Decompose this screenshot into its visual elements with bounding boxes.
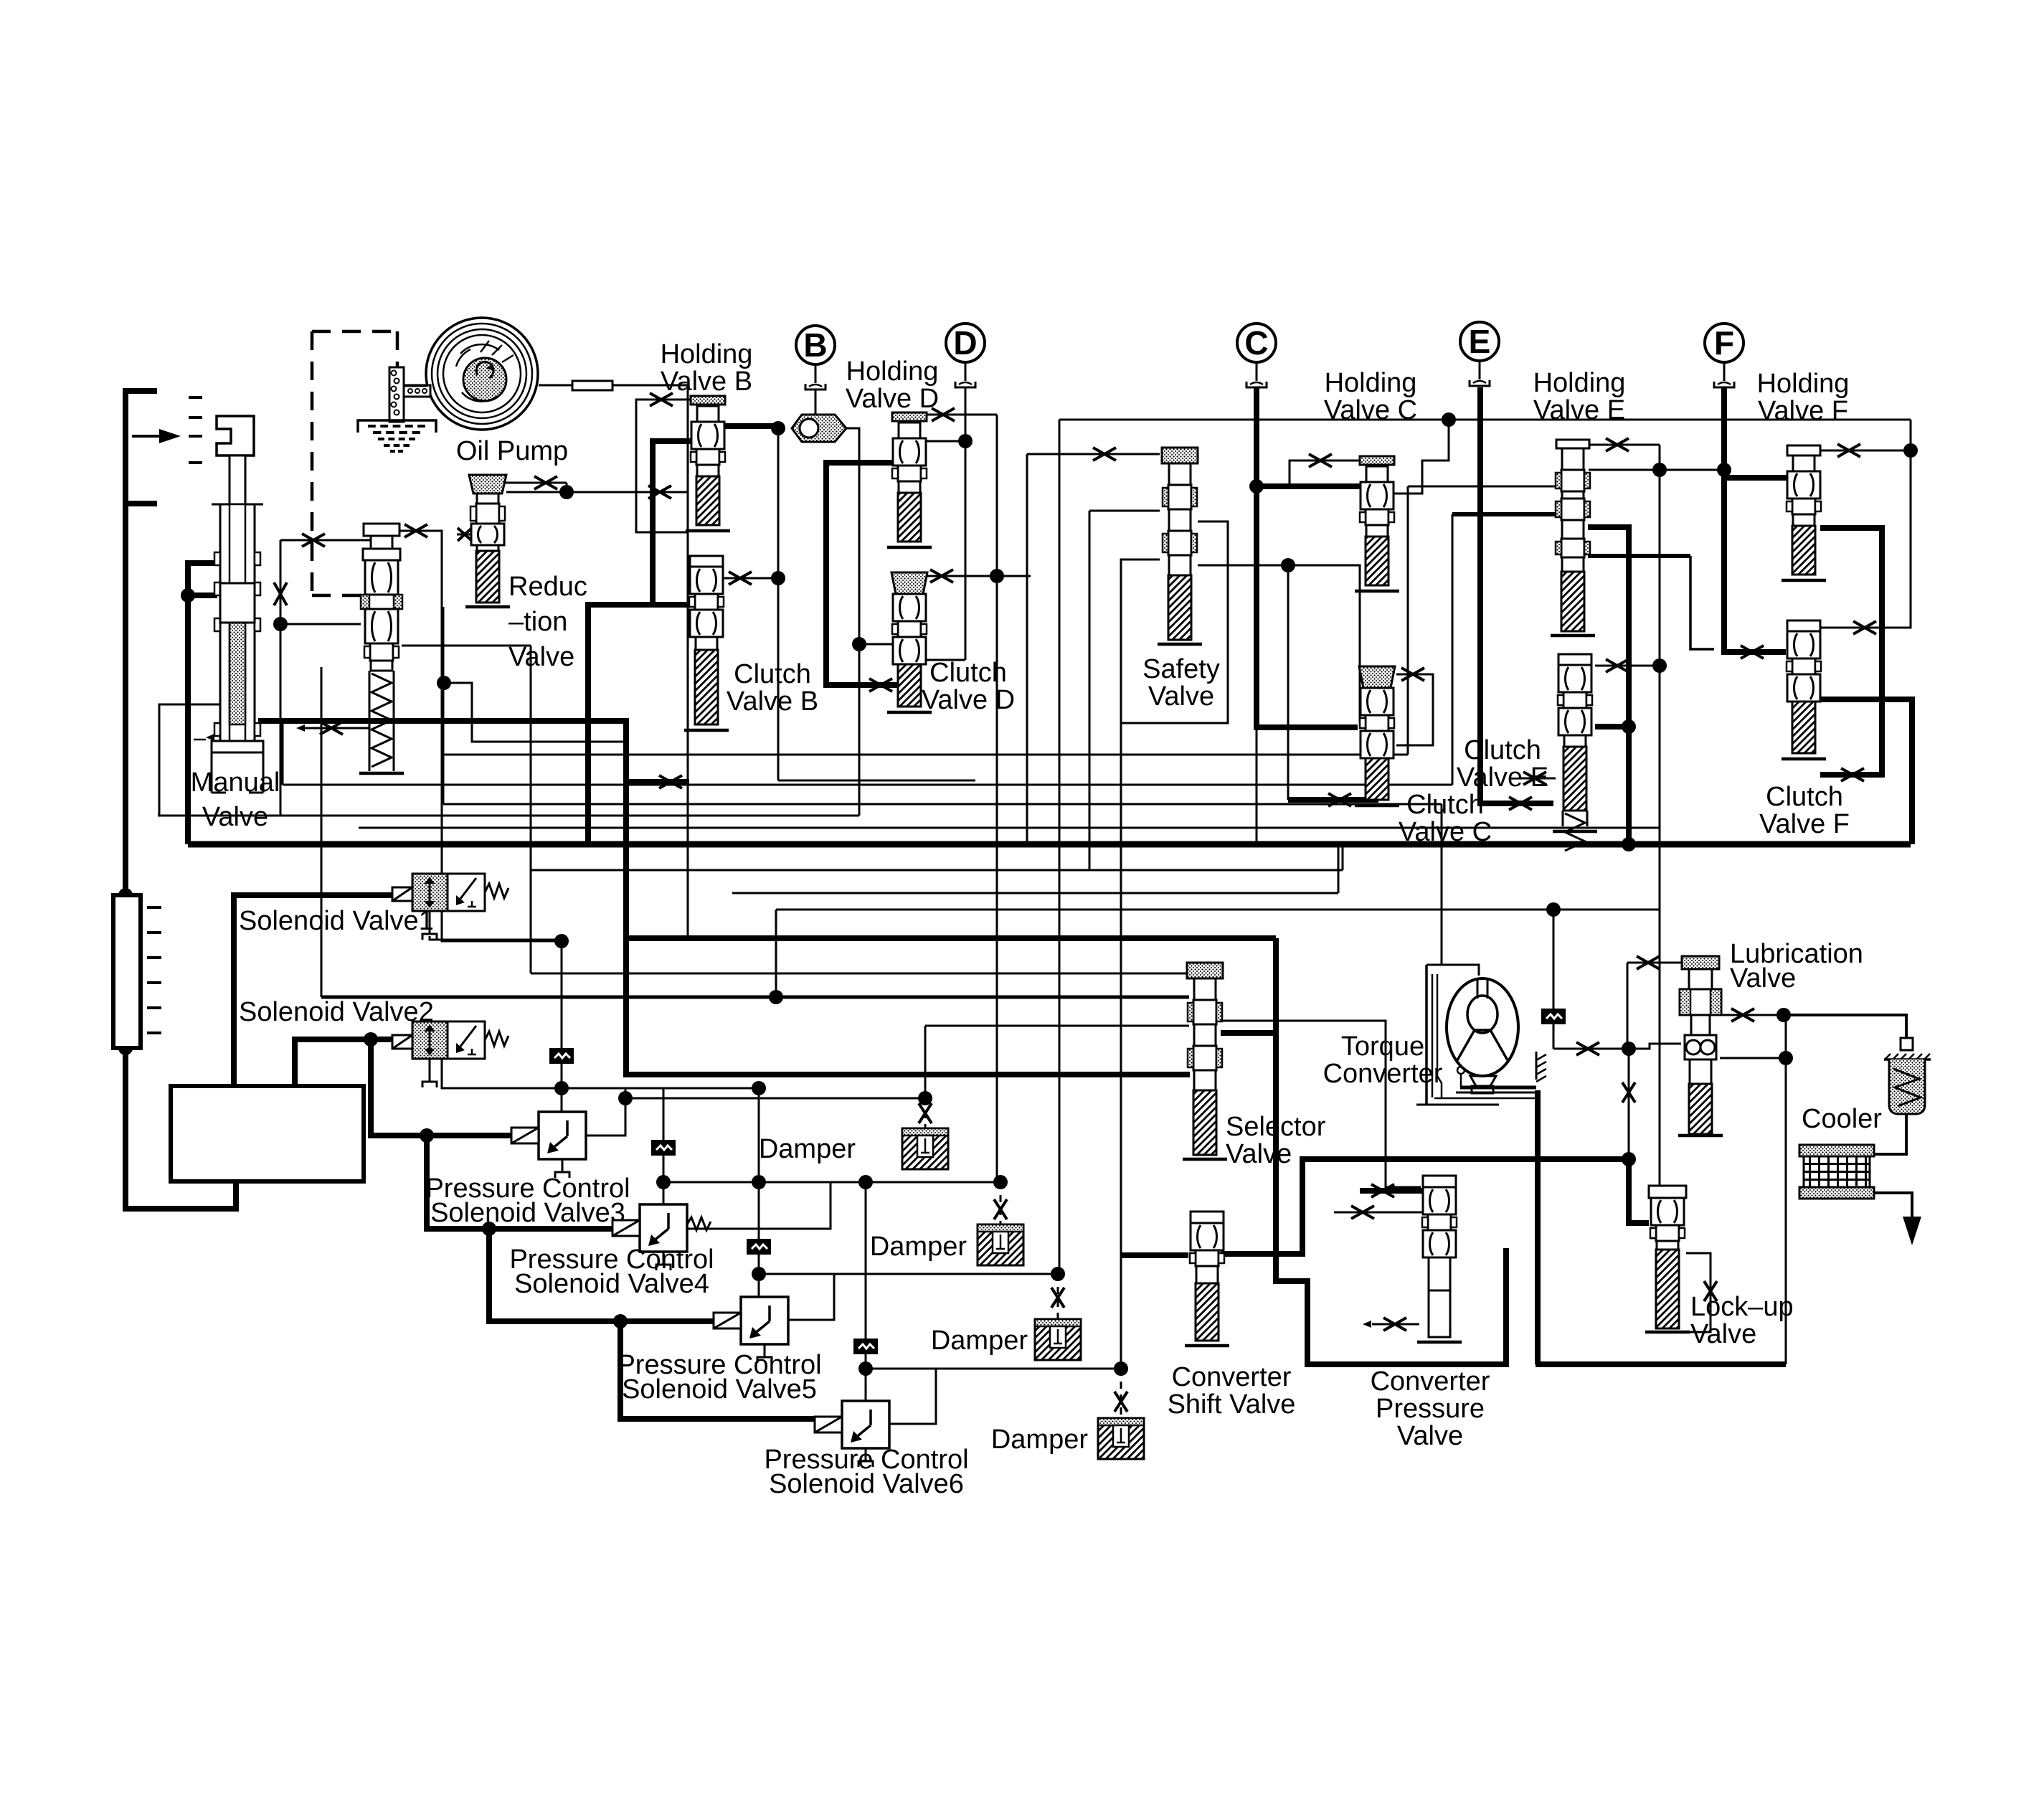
svg-text:Valve E: Valve E [1533, 395, 1625, 425]
svg-text:Damper: Damper [991, 1425, 1088, 1455]
svg-text:Damper: Damper [759, 1134, 856, 1164]
svg-text:Holding: Holding [661, 339, 753, 369]
svg-text:Cooler: Cooler [1802, 1104, 1882, 1134]
svg-text:Valve: Valve [1730, 963, 1796, 993]
svg-text:Valve D: Valve D [922, 685, 1015, 715]
svg-text:Clutch: Clutch [1406, 790, 1484, 820]
svg-text:Valve F: Valve F [1759, 809, 1850, 839]
svg-text:Valve B: Valve B [661, 367, 752, 397]
svg-text:Solenoid Valve5: Solenoid Valve5 [622, 1374, 817, 1404]
svg-text:F: F [1714, 324, 1734, 362]
svg-text:D: D [953, 324, 977, 362]
svg-text:Lock–up: Lock–up [1690, 1292, 1794, 1322]
svg-text:B: B [803, 326, 827, 364]
svg-text:Clutch: Clutch [734, 659, 811, 689]
svg-text:Valve C: Valve C [1399, 817, 1492, 847]
svg-text:Holding: Holding [1533, 368, 1626, 398]
svg-text:Valve: Valve [1690, 1319, 1756, 1349]
svg-text:E: E [1469, 323, 1491, 360]
svg-text:Holding: Holding [1757, 369, 1850, 399]
svg-text:Selector: Selector [1226, 1112, 1326, 1142]
svg-text:Holding: Holding [1325, 368, 1417, 398]
svg-text:Valve: Valve [1397, 1421, 1463, 1451]
svg-text:Holding: Holding [846, 357, 939, 387]
svg-text:Solenoid Valve1: Solenoid Valve1 [239, 906, 434, 936]
svg-text:Solenoid Valve4: Solenoid Valve4 [514, 1269, 709, 1299]
svg-text:Clutch: Clutch [1766, 782, 1843, 812]
svg-text:Valve: Valve [1226, 1139, 1292, 1169]
svg-text:Solenoid Valve6: Solenoid Valve6 [769, 1469, 964, 1499]
svg-text:Converter: Converter [1371, 1366, 1490, 1397]
svg-text:Valve: Valve [202, 802, 268, 832]
svg-text:Oil Pump: Oil Pump [456, 436, 568, 466]
svg-text:Damper: Damper [931, 1326, 1028, 1356]
svg-text:Safety: Safety [1142, 654, 1220, 684]
svg-text:Valve: Valve [1148, 681, 1214, 712]
svg-text:Pressure: Pressure [1376, 1394, 1485, 1424]
svg-text:Reduc: Reduc [508, 572, 587, 602]
svg-text:Converter: Converter [1323, 1059, 1443, 1089]
svg-text:C: C [1244, 324, 1268, 362]
svg-text:Clutch: Clutch [929, 658, 1007, 688]
svg-text:Valve D: Valve D [846, 384, 939, 414]
svg-text:Valve F: Valve F [1758, 396, 1848, 426]
svg-text:Valve B: Valve B [727, 686, 818, 717]
svg-text:–tion: –tion [508, 607, 567, 637]
svg-text:Valve: Valve [508, 642, 574, 672]
svg-text:Converter: Converter [1172, 1362, 1292, 1392]
svg-text:Manual: Manual [191, 768, 280, 798]
svg-text:Clutch: Clutch [1464, 735, 1541, 765]
svg-text:Torque: Torque [1341, 1031, 1424, 1062]
svg-text:Valve E: Valve E [1457, 763, 1548, 793]
svg-text:Solenoid Valve3: Solenoid Valve3 [430, 1198, 625, 1228]
svg-text:Valve C: Valve C [1324, 395, 1417, 425]
svg-text:Shift Valve: Shift Valve [1168, 1389, 1296, 1420]
svg-text:Damper: Damper [870, 1232, 967, 1262]
svg-text:Solenoid Valve2: Solenoid Valve2 [239, 997, 434, 1027]
